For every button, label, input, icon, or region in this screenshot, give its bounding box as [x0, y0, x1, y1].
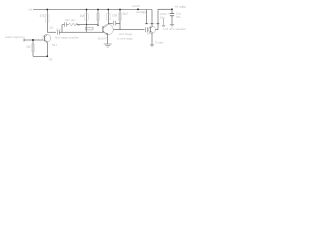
- svg-text:22n 4k7: 22n 4k7: [65, 18, 76, 22]
- transistor Q3: [148, 26, 155, 33]
- svg-text:1M: 1M: [26, 45, 31, 49]
- ground: below Q3 emitter: [150, 44, 154, 47]
- node G: rail junction at electrolytic C4: [171, 8, 173, 10]
- wire: R3 bias drop from rail to base line: [86, 10, 88, 32]
- wire: Q1 emitter down: [46, 43, 48, 57]
- node H: chain junction at R3 bottom: [86, 24, 87, 25]
- node A: rail junction at R1: [46, 9, 48, 11]
- wire: C4 electrolytic from rail node G: [171, 9, 173, 13]
- node I: chain end at R5 bottom: [97, 25, 98, 26]
- svg-text:+9 volts: +9 volts: [175, 5, 187, 9]
- resistor R4 on Q2 base line: [86, 27, 94, 30]
- transistor Q1: [43, 34, 51, 43]
- node D: rail junction at R6: [107, 9, 109, 11]
- resistor R8 1M input bias: [31, 44, 35, 52]
- node J: input junction to R8: [32, 39, 34, 41]
- wire: Q2 collector node to C3: [108, 22, 113, 24]
- resistor R1 47k (Q1 collector load): [46, 15, 50, 23]
- wire: C1 to R2: [62, 24, 69, 26]
- svg-text:16v: 16v: [160, 16, 165, 20]
- resistor R6 10k (Q2 collector load): [107, 14, 111, 21]
- node M: winding foot mid: [151, 23, 154, 25]
- svg-text:25v: 25v: [176, 15, 181, 19]
- wire: Q1 collector drop from rail: [46, 10, 48, 33]
- node C: rail junction at R5: [97, 9, 99, 11]
- wire: R7 drop from rail: [119, 10, 121, 30]
- svg-text:2nd stage: 2nd stage: [119, 32, 133, 36]
- node N: winding foot right: [157, 23, 160, 25]
- wire: small vertical near output: [163, 19, 165, 26]
- capacitor C4 electrolytic plates: [170, 14, 174, 16]
- capacitor C2 coupling (plates): [57, 30, 59, 35]
- svg-text:+9: +9: [28, 8, 32, 12]
- svg-text:10k: 10k: [112, 14, 118, 18]
- wire: +9V top rail left segment: [33, 9, 141, 11]
- svg-text:10n: 10n: [56, 28, 61, 32]
- svg-text:47k: 47k: [40, 14, 46, 18]
- svg-text:0 volts: 0 volts: [155, 41, 164, 45]
- wire: Q2 emitter down to ground: [107, 34, 109, 44]
- svg-text:audio signal in: audio signal in: [5, 35, 25, 39]
- svg-text:BC547: BC547: [98, 37, 108, 41]
- svg-text:2k2: 2k2: [123, 12, 128, 16]
- wire: audio input line: [24, 39, 43, 41]
- svg-text:0v: 0v: [49, 58, 53, 62]
- node L: winding foot left: [145, 23, 148, 25]
- svg-text:1M: 1M: [80, 14, 85, 18]
- capacitor C5 series (plates): [145, 27, 147, 32]
- wire: +9V top rail right segment: [158, 8, 172, 10]
- terminal: input tick: [23, 39, 25, 42]
- capacitor C3 coupling: [114, 21, 116, 26]
- node F: rail junction at switch: [137, 8, 139, 10]
- svg-text:547: 547: [52, 43, 57, 47]
- wire: speaker vertical left: [146, 10, 148, 24]
- wire: C4 lower lead: [171, 16, 173, 24]
- wire: C2 to feedback chain riser: [59, 31, 102, 33]
- svg-text:to 8 ohm speaker: to 8 ohm speaker: [163, 27, 186, 31]
- speaker: winding base bar: [147, 23, 159, 25]
- resistor R3 1M (bias): [85, 14, 89, 21]
- svg-text:Q1: Q1: [50, 26, 54, 30]
- svg-text:to next stage: to next stage: [117, 37, 133, 41]
- wire: chain to Q2 base node: [77, 24, 99, 26]
- resistor R5 10k: [96, 14, 100, 21]
- wire: Q3 cluster to x158 riser: [156, 29, 158, 31]
- svg-text:on/off: on/off: [132, 4, 140, 8]
- wire: Q1 collector to coupling cap: [47, 31, 56, 33]
- wire: R8 drop from input node: [32, 40, 34, 56]
- resistor R2 zigzag in series chain: [69, 23, 80, 26]
- wire: riser from base line up to feedback chain: [61, 25, 63, 33]
- capacitor C1 series in chain (plates): [65, 22, 67, 27]
- wire: R5 drop from rail: [97, 10, 99, 26]
- svg-text:+: +: [168, 12, 170, 16]
- svg-text:first stage amplifier: first stage amplifier: [55, 36, 79, 40]
- wire: Q2 collector riser to R5: [107, 10, 109, 25]
- node B: rail junction at R3: [86, 9, 88, 11]
- ground: below Q2 emitter: [104, 44, 112, 47]
- wire: Q3 emitter down: [151, 33, 153, 44]
- ground: below C4: [170, 25, 174, 28]
- transistor Q2: [103, 24, 114, 35]
- wire: speaker vertical right (rail2 end drop): [157, 9, 159, 29]
- wire: C3 to R7 bottom: [116, 22, 120, 24]
- node E: rail junction at R7: [119, 9, 121, 11]
- ground: small near output: [162, 25, 165, 26]
- wire: speaker vertical mid (rail1 end drop): [151, 10, 153, 27]
- wire: bottom return to Q1 emitter: [33, 55, 47, 57]
- node K: emitter/bottom junction: [46, 55, 48, 57]
- wire: signal line to output stage: [114, 29, 145, 31]
- resistor R7 2k2: [118, 14, 122, 21]
- svg-text:547: 547: [147, 32, 152, 36]
